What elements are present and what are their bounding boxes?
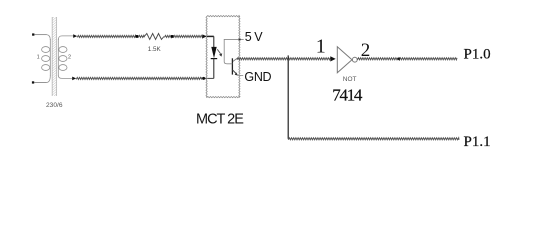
T1 primary loop 2 [42,56,50,62]
T1 primary loop 1 [42,47,50,53]
svg-text:2: 2 [68,55,71,61]
junction square J1 [136,35,139,38]
svg-text:1: 1 [316,36,326,58]
svg-text:7414: 7414 [332,85,363,104]
Q1 base return wire to 5V pin [224,39,244,63]
T1 primary winding rail [49,39,51,76]
wire: top net segment A [77,35,136,37]
wire: J2 to optocoupler anode [174,35,203,37]
T1 primary top terminal [32,33,34,35]
arrow into optocoupler anode [202,34,206,38]
optocoupler U1 box (MCT 2E) [207,16,240,17]
wire: resistor to J2 [164,35,171,37]
T1 secondary top corner [58,36,73,40]
T1 core left rail [51,17,53,96]
phototransistor Q1 base bar [231,58,233,74]
GND stub [238,74,244,76]
T1 secondary bottom corner [58,76,72,79]
wire: gate output net [357,58,457,60]
Q1 collector [233,57,239,61]
svg-text:5 V: 5 V [245,30,263,44]
inverter U2 triangle [337,47,352,73]
svg-text:P1.1: P1.1 [464,134,491,150]
Q1 emitter arrowhead [235,72,238,75]
wire: top terminal to primary coil [34,34,46,36]
wire: into box bottom [205,77,214,79]
gate input arrow [330,56,335,61]
T1 primary bottom terminal [32,81,34,83]
junction square J2 [171,35,174,38]
LED D1 triangle [211,47,216,58]
svg-text:NOT: NOT [343,76,357,83]
T1 core hatch [52,17,56,96]
wire: bottom net from secondary [76,77,201,79]
resistor R1 zigzag [144,34,164,40]
T1 primary entry arc [47,35,51,40]
junction dot at optocoupler cathode entry [202,77,205,80]
T1 primary loop 3 [42,65,50,71]
svg-text:MCT 2E: MCT 2E [196,112,244,128]
T1 secondary loop 1 [59,47,67,53]
LED D1 cathode bar [211,58,218,60]
wire: output net to gate input [237,58,330,60]
T1 secondary loop 3 [59,65,67,71]
wire: J1 to resistor lead [138,35,144,37]
arrow on secondary top wire [73,34,77,38]
wire: into box top [207,35,214,37]
arrow on secondary bottom wire [72,77,76,81]
svg-text:P1.0: P1.0 [464,47,491,63]
branch vertical wire to P1.1 [287,55,289,138]
inverter U2 bubble [352,57,357,62]
Q1 emitter [232,70,236,74]
wire: primary coil to bottom terminal [34,82,46,84]
T1 secondary winding rail [57,39,59,76]
T1 primary exit arc [47,76,51,83]
svg-text:230/6: 230/6 [46,102,63,109]
T1 secondary loop 2 [59,56,67,62]
svg-text:GND: GND [244,70,271,84]
small left arrow on output net [397,57,400,61]
svg-text:1.5K: 1.5K [148,46,162,53]
light arrow [217,49,220,54]
T1 core right rail [56,17,58,96]
LED D1 cathode wire [213,59,215,79]
transformer T1 [32,17,73,109]
LED D1 anode wire [213,36,215,47]
wire: bottom net to P1.1 [288,138,459,140]
junction at box edge near 5V [239,39,241,41]
svg-text:1: 1 [37,54,40,60]
